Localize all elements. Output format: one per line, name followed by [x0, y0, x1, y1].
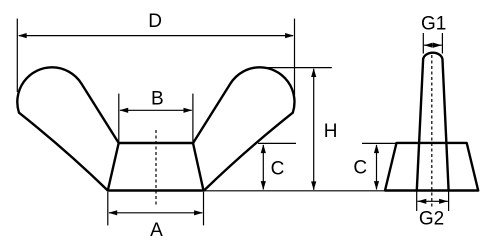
B arrowhead left — [119, 108, 128, 113]
D dimension line — [19, 35, 293, 37]
svg-text:C: C — [353, 158, 367, 179]
H top extension line — [262, 67, 332, 69]
D arrowhead left — [18, 33, 27, 38]
svg-text:C: C — [271, 158, 285, 179]
C side arrowhead bottom — [374, 181, 379, 190]
centerline side view — [431, 55, 433, 207]
B arrowhead right — [184, 108, 193, 113]
D extension line left — [16, 19, 18, 92]
svg-text:G1: G1 — [421, 14, 446, 35]
H dimension line — [313, 69, 315, 190]
D arrowhead right — [285, 33, 294, 38]
G1 extension line right — [441, 33, 443, 54]
left wing — [17, 67, 118, 190]
C side top extension line — [362, 142, 397, 144]
C front arrowhead top — [261, 144, 266, 153]
D extension line right — [294, 19, 296, 96]
G2 dimension line — [417, 200, 448, 202]
svg-text:G2: G2 — [419, 208, 444, 229]
G1 arrowhead right — [433, 43, 442, 48]
H arrowhead top — [311, 68, 316, 77]
B extension line right — [192, 94, 194, 143]
svg-text:D: D — [148, 11, 162, 32]
nut body trapezoid (front view) — [108, 143, 204, 191]
C front top extension line — [258, 142, 296, 144]
G2 arrowhead left — [418, 199, 427, 204]
C front dimension line — [262, 145, 264, 189]
C side dimension line — [376, 145, 378, 189]
svg-text:A: A — [150, 220, 163, 241]
side-view wing tongue — [417, 53, 449, 191]
right wing — [193, 67, 294, 190]
baseline extension line — [204, 190, 386, 192]
B extension line left — [118, 94, 120, 143]
svg-text:B: B — [151, 88, 164, 109]
G2 arrowhead right — [439, 199, 448, 204]
G1 arrowhead left — [424, 43, 433, 48]
H arrowhead bottom — [311, 181, 316, 190]
C side arrowhead top — [374, 144, 379, 153]
G2 extension line right — [448, 192, 450, 212]
A arrowhead left — [108, 210, 117, 215]
svg-text:H: H — [324, 121, 338, 142]
C front arrowhead bottom — [261, 181, 266, 190]
G1 extension line left — [422, 33, 424, 54]
side-view base trapezoid — [385, 143, 478, 191]
B dimension line — [120, 109, 192, 111]
centerline front view — [155, 130, 157, 207]
A extension line left — [107, 192, 109, 225]
G2 extension line left — [416, 192, 418, 212]
A dimension line — [109, 212, 202, 214]
G1 dimension line — [424, 44, 442, 46]
A extension line right — [203, 192, 205, 225]
A arrowhead right — [194, 210, 203, 215]
